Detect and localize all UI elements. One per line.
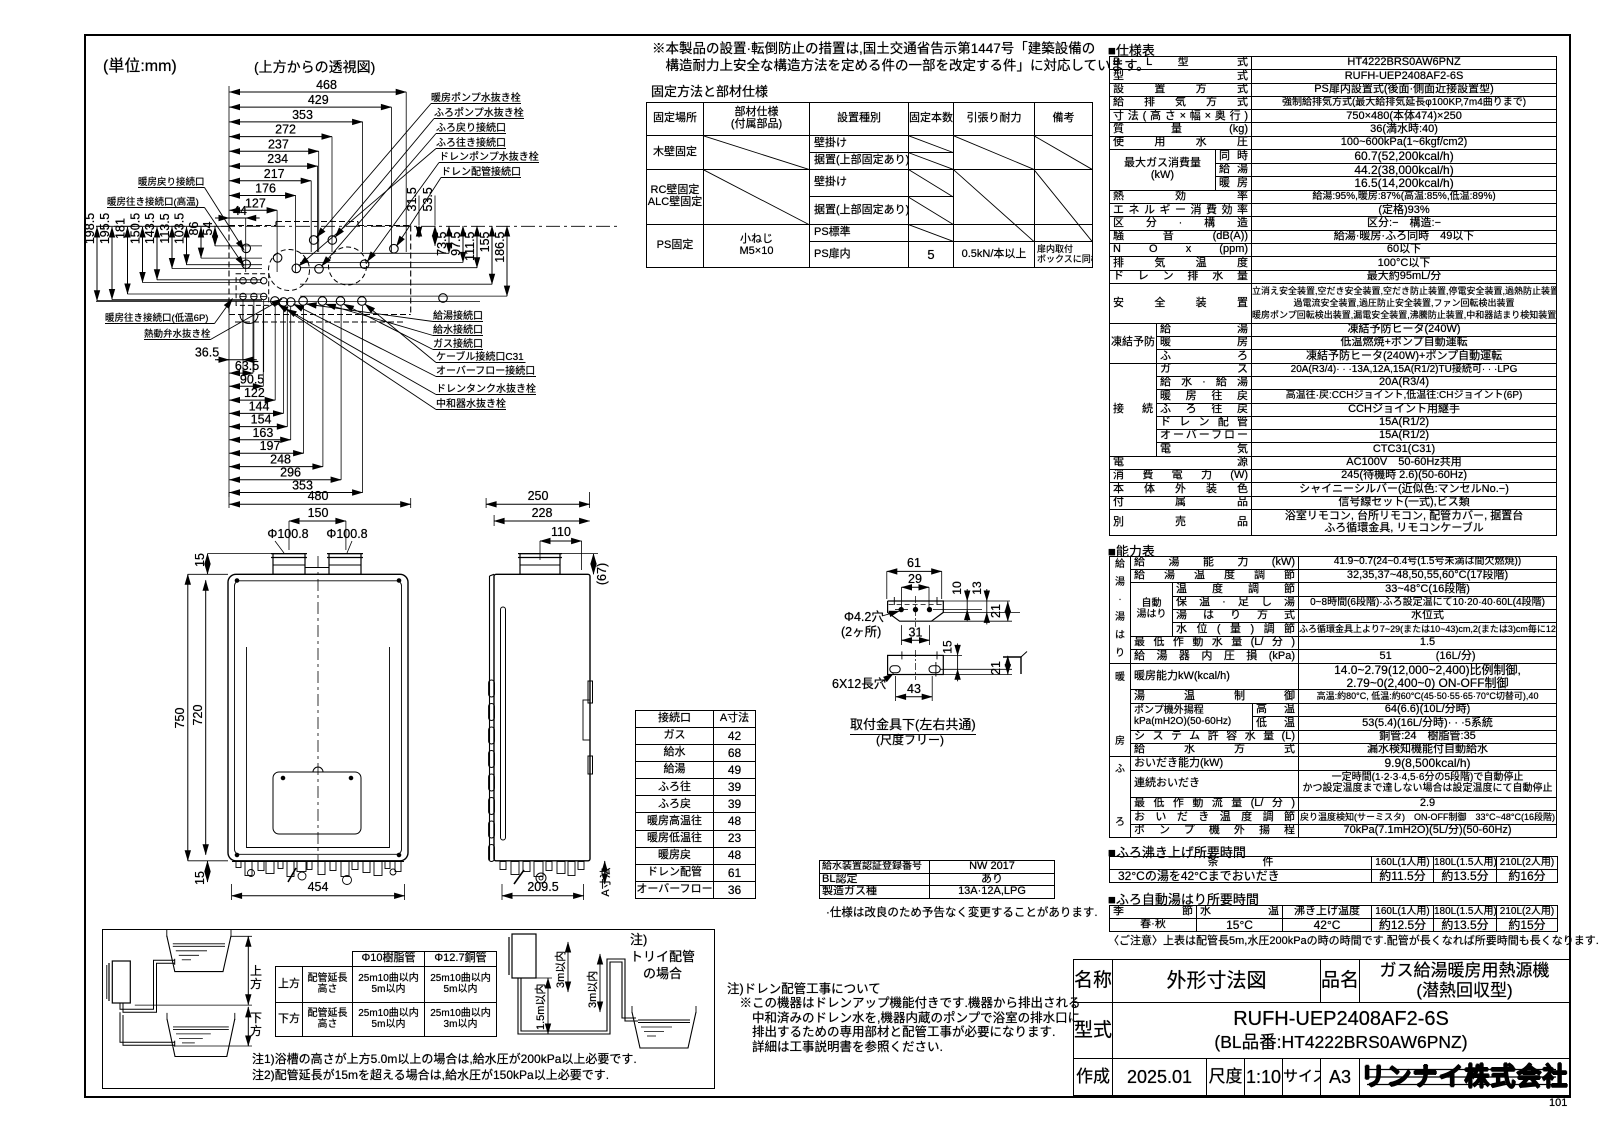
side fitting 6 bbox=[557, 862, 565, 874]
svg-text:1.5m以内: 1.5m以内 bbox=[533, 984, 547, 1030]
dim (67) side bbox=[593, 554, 595, 575]
front view inner panel bbox=[235, 581, 402, 855]
front fitting 11 bbox=[341, 862, 349, 877]
left dims top reference bbox=[96, 225, 229, 227]
dim 154 extension bbox=[286, 306, 288, 427]
svg-text:468: 468 bbox=[316, 78, 337, 92]
svg-text:44: 44 bbox=[233, 204, 247, 218]
connector block (dashed) bbox=[236, 274, 269, 306]
capability table header bbox=[1108, 541, 1155, 560]
side view long slit bbox=[501, 607, 506, 840]
dim 144 (bottom stack) bbox=[230, 412, 284, 414]
port circle u9 bbox=[360, 260, 369, 269]
port circle l3 bbox=[287, 298, 296, 307]
dim 150 (front pipes) bbox=[289, 520, 346, 522]
dim 195.5 port line bbox=[112, 299, 262, 301]
front bottom fitting rail bbox=[232, 861, 404, 863]
side louver slot 8 bbox=[489, 845, 495, 862]
dim A (side bottom) bbox=[604, 861, 606, 884]
dim 29 (bracket) bbox=[902, 586, 930, 588]
title block T9 bbox=[1073, 959, 1570, 1096]
side fitting 8 bbox=[578, 862, 584, 870]
svg-text:15: 15 bbox=[193, 553, 207, 567]
dim 186.5 port line bbox=[300, 295, 507, 297]
svg-text:217: 217 bbox=[264, 167, 285, 181]
dim 195.5 (left vertical) bbox=[111, 227, 113, 300]
table T5 bbox=[1109, 905, 1558, 932]
dim 237 extension bbox=[318, 151, 320, 252]
side louver slot 6 bbox=[489, 798, 495, 815]
port circle l4 bbox=[299, 297, 308, 306]
dim 353 extension bbox=[362, 306, 364, 493]
certification table T7 bbox=[819, 860, 1055, 899]
svg-text:127: 127 bbox=[245, 196, 266, 210]
port circle u7 bbox=[292, 264, 301, 273]
svg-text:Φ100.8: Φ100.8 bbox=[326, 527, 367, 541]
svg-text:暖房往き接続口(低温6P): 暖房往き接続口(低温6P) bbox=[105, 312, 208, 324]
L angle symbol bbox=[1003, 657, 1021, 674]
dim 43 (bracket2) bbox=[896, 696, 933, 698]
svg-text:429: 429 bbox=[308, 93, 329, 107]
piping area box bbox=[102, 929, 715, 1089]
dim 217 extension bbox=[310, 181, 312, 252]
dim 15 (front top) bbox=[207, 554, 209, 575]
bath heating time header bbox=[1108, 842, 1246, 861]
dim 181 (left vertical) bbox=[127, 227, 129, 294]
note: product installation regulation bbox=[652, 41, 1150, 75]
top dim extension line left bbox=[228, 86, 230, 225]
connector extension 3 bbox=[263, 300, 265, 372]
dim 10 (bracket) bbox=[966, 589, 968, 601]
diag count row2 bbox=[908, 153, 953, 170]
svg-text:197: 197 bbox=[260, 439, 281, 453]
svg-text:ふろポンプ水抜き栓: ふろポンプ水抜き栓 bbox=[434, 106, 524, 119]
port circle u10 bbox=[439, 294, 448, 303]
connector extension 2 bbox=[253, 300, 255, 372]
svg-text:15: 15 bbox=[193, 871, 207, 885]
bottom dim extension line left bbox=[228, 300, 230, 497]
svg-text:6X12長穴: 6X12長穴 bbox=[832, 676, 887, 691]
svg-text:ドレンタンク水抜き栓: ドレンタンク水抜き栓 bbox=[436, 382, 536, 395]
dim 750 (front height) bbox=[187, 574, 189, 861]
connector extension 1 bbox=[242, 300, 244, 372]
dim 234 extension bbox=[317, 166, 319, 252]
dim 31.5 riser bbox=[418, 196, 420, 226]
front view body bbox=[228, 574, 408, 861]
side louver slot 3 bbox=[489, 727, 495, 744]
bath filling time header bbox=[1108, 889, 1259, 908]
dim 54 (left vertical) bbox=[214, 227, 216, 246]
table T3: 能力表 bbox=[1109, 556, 1557, 838]
svg-text:29: 29 bbox=[908, 572, 922, 586]
unit note top-left bbox=[103, 52, 177, 76]
svg-text:163: 163 bbox=[252, 426, 273, 440]
dim 155 port line bbox=[300, 283, 492, 285]
front fitting 12 bbox=[352, 862, 358, 870]
svg-text:ガス接続口: ガス接続口 bbox=[433, 337, 483, 350]
dim 468 extension bbox=[405, 92, 407, 252]
svg-text:237: 237 bbox=[268, 137, 289, 151]
connector circle bottom 2 bbox=[251, 293, 257, 299]
upper bathtub bbox=[167, 936, 231, 972]
dim 154 (bottom stack) bbox=[230, 426, 288, 428]
svg-text:(67): (67) bbox=[595, 563, 609, 585]
svg-text:3m以内: 3m以内 bbox=[553, 951, 567, 988]
dim 63.5 extension bbox=[252, 306, 254, 373]
connector circle bottom 1 bbox=[240, 293, 246, 299]
dim 143.5 port line bbox=[157, 279, 262, 281]
dim 63.5 (bottom stack) bbox=[230, 372, 254, 374]
heater box left bbox=[112, 961, 130, 1003]
dim 176 extension bbox=[295, 196, 297, 273]
svg-text:31: 31 bbox=[909, 626, 923, 640]
front fitting 6 bbox=[287, 862, 294, 877]
dim 454 (front bottom) bbox=[232, 895, 405, 897]
svg-text:3m以内: 3m以内 bbox=[585, 971, 599, 1008]
dim 31 (bracket) bbox=[902, 639, 930, 641]
dim joho (upper) bbox=[247, 936, 249, 1004]
dim 13 (bracket) bbox=[986, 589, 988, 601]
body screw bbox=[235, 853, 239, 857]
front fitting 8 bbox=[307, 862, 312, 870]
dim 3m b bbox=[599, 954, 601, 1012]
side view body bbox=[494, 574, 590, 861]
dim 86 (left vertical) bbox=[200, 227, 202, 258]
svg-text:ドレンポンプ水抜き栓: ドレンポンプ水抜き栓 bbox=[439, 150, 539, 163]
svg-text:195.5: 195.5 bbox=[98, 213, 112, 244]
svg-text:方: 方 bbox=[250, 1023, 262, 1038]
svg-text:ケーブル接続口C31: ケーブル接続口C31 bbox=[436, 350, 524, 363]
right bathtub bbox=[632, 1012, 696, 1048]
dim 217 (top view) bbox=[230, 180, 312, 182]
front fitting 2 bbox=[245, 862, 252, 876]
top view long centerline bbox=[96, 225, 620, 227]
dim 97.5 (right vertical) bbox=[462, 226, 464, 262]
dim 61 (bracket) bbox=[887, 570, 942, 572]
svg-text:97.5: 97.5 bbox=[449, 231, 463, 255]
front fitting circle bbox=[248, 870, 255, 877]
lower bathtub bbox=[167, 1019, 235, 1057]
svg-text:150.5: 150.5 bbox=[129, 213, 143, 244]
bracket caption bbox=[850, 714, 976, 735]
body screw bbox=[235, 579, 239, 583]
svg-text:36.5: 36.5 bbox=[195, 346, 219, 360]
svg-text:209.5: 209.5 bbox=[527, 880, 558, 894]
front fitting 15 bbox=[385, 862, 390, 869]
front fitting 16 bbox=[395, 862, 401, 872]
port circle u3 bbox=[390, 244, 399, 253]
torii pipe bbox=[518, 962, 636, 1034]
front fitting 3 bbox=[258, 862, 264, 871]
dim 127 extension bbox=[276, 210, 278, 272]
dim 54 port line bbox=[215, 245, 262, 247]
dim kaho (lower) bbox=[247, 1007, 249, 1046]
side louver slot 4 bbox=[489, 751, 495, 768]
svg-text:給湯接続口: 給湯接続口 bbox=[433, 309, 483, 322]
body screw bbox=[397, 853, 401, 857]
port circle l1 bbox=[271, 297, 280, 306]
svg-text:143.5: 143.5 bbox=[143, 213, 157, 244]
side fitting 7 bbox=[568, 862, 575, 876]
svg-text:353: 353 bbox=[292, 108, 313, 122]
diag note rows12 bbox=[1034, 136, 1092, 170]
front fitting 5 bbox=[278, 862, 283, 869]
svg-text:90.5: 90.5 bbox=[240, 372, 264, 386]
svg-text:A寸法: A寸法 bbox=[598, 867, 612, 896]
dim 144 extension bbox=[283, 306, 285, 413]
side fitting 1 bbox=[500, 862, 506, 870]
port circle l2 bbox=[279, 298, 288, 307]
front view bottom seam bbox=[247, 847, 390, 849]
port circle u2 bbox=[328, 236, 337, 245]
svg-text:上: 上 bbox=[250, 964, 262, 978]
port circle u1 bbox=[309, 236, 318, 245]
svg-text:オーバーフロー接続口: オーバーフロー接続口 bbox=[436, 364, 535, 377]
dim 163 (bottom stack) bbox=[230, 439, 291, 441]
dim 143.5 (left vertical) bbox=[156, 227, 158, 280]
connector circle top 1 bbox=[240, 278, 246, 284]
pipe heater to upper tub bbox=[120, 960, 175, 1009]
svg-text:154: 154 bbox=[251, 413, 272, 427]
bracket upper plate bbox=[888, 601, 944, 621]
svg-text:122: 122 bbox=[244, 386, 265, 400]
svg-text:228: 228 bbox=[532, 506, 553, 520]
dim 21 (bracket2) bbox=[1007, 656, 1009, 675]
dim 353 (bottom stack) bbox=[230, 492, 363, 494]
svg-text:ふろ往き接続口: ふろ往き接続口 bbox=[436, 136, 506, 149]
exhaust pipe front bbox=[329, 554, 361, 575]
dim 198.5 (left vertical) bbox=[96, 227, 98, 301]
flue adapter plate bbox=[305, 568, 329, 575]
svg-text:176: 176 bbox=[255, 182, 276, 196]
dim 86 port line bbox=[201, 257, 262, 259]
port circle l7 bbox=[358, 297, 367, 306]
table T1 title bbox=[651, 81, 768, 100]
top view title bbox=[254, 57, 375, 77]
front fitting 9 bbox=[318, 862, 325, 875]
side fitting 4 bbox=[534, 862, 543, 877]
svg-text:方: 方 bbox=[250, 976, 262, 991]
svg-text:250: 250 bbox=[528, 489, 549, 503]
dim 353 (top view) bbox=[230, 121, 363, 123]
dim 228 (side) bbox=[494, 520, 589, 522]
dim 181 port line bbox=[128, 293, 263, 295]
top view unit outline (dashed) bbox=[229, 225, 276, 227]
svg-text:暖房戻り接続口: 暖房戻り接続口 bbox=[138, 176, 205, 188]
dim 113.5 port line bbox=[172, 268, 262, 270]
dim 186.5 (right vertical) bbox=[506, 226, 508, 296]
diag count row1 bbox=[908, 136, 953, 153]
dim 155 (right vertical) bbox=[491, 226, 493, 284]
dim 36.5 extension bbox=[242, 306, 244, 360]
svg-text:13: 13 bbox=[970, 581, 984, 595]
top view lower reference line bbox=[96, 301, 480, 303]
fan circle (dashed) bbox=[269, 250, 310, 291]
svg-text:Φ4.2穴: Φ4.2穴 bbox=[844, 609, 884, 624]
dim 53.5 (right upper) bbox=[434, 226, 436, 246]
svg-text:144: 144 bbox=[249, 399, 270, 413]
side fitting 3 bbox=[523, 862, 530, 872]
svg-text:234: 234 bbox=[267, 152, 288, 166]
svg-text:73.5: 73.5 bbox=[435, 231, 449, 255]
bracket slot left bbox=[890, 666, 900, 673]
company name strokes bbox=[1367, 1069, 1556, 1071]
svg-text:720: 720 bbox=[191, 705, 205, 726]
svg-text:54: 54 bbox=[201, 222, 215, 236]
dim 176 (top view) bbox=[230, 195, 296, 197]
dim 234 (top view) bbox=[230, 165, 318, 167]
port circle l5 bbox=[318, 297, 327, 306]
dim 237 (top view) bbox=[230, 150, 319, 152]
dim 1.5m bbox=[547, 978, 549, 1034]
front fitting 10 bbox=[330, 862, 336, 871]
dim 197 extension bbox=[303, 306, 305, 453]
side view exhaust pipe bbox=[520, 554, 560, 575]
dim 122 (bottom stack) bbox=[230, 399, 276, 401]
dim 122 extension bbox=[274, 306, 276, 400]
svg-text:103.5: 103.5 bbox=[173, 213, 187, 244]
svg-text:181: 181 bbox=[114, 218, 128, 239]
bracket upper holes bbox=[899, 607, 903, 611]
dim 3m a bbox=[567, 942, 569, 992]
svg-text:(2ヶ所): (2ヶ所) bbox=[841, 625, 881, 639]
bracket slot right bbox=[929, 666, 940, 673]
front fitting 13 bbox=[363, 862, 370, 873]
svg-text:Φ100.8: Φ100.8 bbox=[267, 527, 308, 541]
svg-text:熱動弁水抜き栓: 熱動弁水抜き栓 bbox=[144, 328, 211, 340]
svg-text:272: 272 bbox=[275, 123, 296, 137]
diag count row3 bbox=[908, 169, 953, 197]
dim 429 extension bbox=[390, 107, 392, 252]
side small box bbox=[583, 700, 590, 740]
diag count row5 bbox=[908, 224, 953, 241]
svg-text:10: 10 bbox=[950, 581, 964, 595]
svg-text:63.5: 63.5 bbox=[235, 359, 259, 373]
dim 111.5 (right vertical) bbox=[476, 226, 478, 268]
side louver slot 7 bbox=[489, 821, 495, 838]
dim 90.5 (bottom stack) bbox=[230, 385, 264, 387]
side fitting circle bbox=[536, 873, 546, 883]
port circle u5 bbox=[242, 260, 251, 269]
svg-text:86: 86 bbox=[187, 222, 201, 236]
port circle l6 bbox=[336, 297, 345, 306]
side hook lower bbox=[588, 756, 593, 774]
spec table header bbox=[1108, 40, 1155, 59]
drain note bbox=[727, 982, 1080, 1054]
dim 31.5 (right upper) bbox=[418, 226, 420, 237]
table T4 bbox=[1109, 856, 1558, 883]
dim 468 (top view) bbox=[230, 91, 407, 93]
dim 44 (top view) bbox=[215, 217, 260, 219]
front access panel bbox=[273, 772, 361, 834]
svg-text:186.5: 186.5 bbox=[493, 231, 507, 262]
diag material wood bbox=[703, 136, 809, 170]
svg-text:43: 43 bbox=[907, 682, 921, 696]
front view centerline bbox=[317, 556, 319, 872]
heater box right bbox=[512, 934, 536, 978]
dim 73.5 port line bbox=[300, 252, 449, 254]
svg-text:21: 21 bbox=[989, 661, 1003, 675]
svg-text:198.5: 198.5 bbox=[83, 213, 97, 244]
svg-text:111.5: 111.5 bbox=[463, 231, 477, 260]
dim 720 (front height inner) bbox=[205, 580, 207, 855]
table T1: fixing methods bbox=[646, 102, 1093, 268]
port circle u6 bbox=[273, 253, 282, 262]
dim 53.5 riser bbox=[434, 196, 436, 226]
port circle u4 bbox=[242, 244, 251, 253]
fan circle right (dashed) bbox=[329, 247, 367, 285]
front view door seam right bbox=[389, 647, 391, 848]
front fitting 1 bbox=[236, 862, 241, 868]
svg-text:暖房ポンプ水抜き栓: 暖房ポンプ水抜き栓 bbox=[431, 91, 521, 104]
dim 111.5 port line bbox=[300, 267, 477, 269]
side louver slot 1 bbox=[489, 680, 495, 697]
dim 113.5 (left vertical) bbox=[171, 227, 173, 269]
dim 90.5 extension bbox=[262, 306, 264, 386]
diag note rows345 bbox=[1034, 169, 1092, 241]
dim 97.5 port line bbox=[300, 261, 463, 263]
side drain lever bbox=[514, 870, 524, 884]
connection A-size table T6 bbox=[635, 710, 756, 899]
svg-text:454: 454 bbox=[308, 880, 329, 894]
dim 197 (bottom stack) bbox=[230, 452, 304, 454]
front fitting circle bbox=[343, 876, 352, 885]
dim 163 extension bbox=[290, 306, 292, 440]
side louver slot 5 bbox=[489, 774, 495, 791]
svg-text:750: 750 bbox=[173, 708, 187, 729]
dim 480 (front) bbox=[230, 503, 411, 505]
dim 250 (side) bbox=[486, 503, 589, 505]
front view door seam left bbox=[246, 647, 248, 848]
svg-text:113.5: 113.5 bbox=[158, 213, 172, 243]
svg-text:110: 110 bbox=[551, 525, 571, 539]
front fitting 14 bbox=[374, 862, 382, 876]
dim 103.5 (left vertical) bbox=[186, 227, 188, 265]
neutralizer bulge bbox=[240, 315, 258, 324]
dim 110 (side pipe) bbox=[540, 540, 582, 542]
dim 209.5 (side) bbox=[502, 895, 584, 897]
svg-text:中和器水抜き栓: 中和器水抜き栓 bbox=[436, 397, 506, 410]
side view flange bbox=[489, 576, 491, 860]
svg-text:150: 150 bbox=[308, 506, 329, 520]
connector circle top 3 bbox=[261, 278, 267, 284]
svg-text:給水接続口: 給水接続口 bbox=[433, 323, 483, 336]
piping table T8 bbox=[275, 951, 497, 1037]
svg-text:61: 61 bbox=[907, 556, 921, 570]
dim 429 (top view) bbox=[230, 106, 392, 108]
svg-text:ドレン配管接続口: ドレン配管接続口 bbox=[441, 165, 521, 178]
diag pull rows12 bbox=[953, 136, 1034, 170]
port circle u8 bbox=[315, 265, 324, 274]
connector circle bottom 3 bbox=[261, 293, 267, 299]
side fitting 5 bbox=[546, 862, 552, 871]
dim 150.5 port line bbox=[143, 282, 263, 284]
dim 353 extension bbox=[362, 122, 364, 252]
dim 198.5 port line bbox=[97, 300, 262, 302]
dim 127 (top view) bbox=[230, 209, 278, 211]
svg-text:暖房往き接続口(高温): 暖房往き接続口(高温) bbox=[107, 196, 199, 208]
dim 44 extension bbox=[245, 218, 247, 272]
dim 272 (top view) bbox=[230, 136, 333, 138]
svg-text:21: 21 bbox=[989, 604, 1003, 618]
front drain lever bbox=[288, 868, 296, 882]
dim 296 (bottom stack) bbox=[230, 479, 342, 481]
connector circle top 2 bbox=[251, 278, 257, 284]
dim 73.5 (right vertical) bbox=[448, 226, 450, 253]
dim 15 (bracket2) bbox=[957, 643, 959, 655]
dim 36.5 (bottom stack) bbox=[215, 359, 257, 361]
front fitting 7 bbox=[297, 862, 306, 872]
